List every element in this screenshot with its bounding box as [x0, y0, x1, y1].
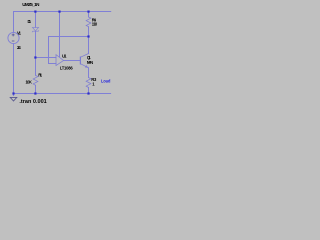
- transistor Q1: [80, 54, 88, 68]
- ground: [10, 97, 17, 101]
- wire top rail: [14, 11, 111, 13]
- wire op-amp output to Q1 base: [64, 60, 81, 62]
- svg-text:NPN: NPN: [87, 60, 93, 65]
- wire feedback vertical: [48, 37, 50, 64]
- resistor R1: [33, 75, 38, 85]
- wire Q1 emitter vertical to R3: [88, 68, 90, 78]
- svg-text:10K: 10K: [26, 79, 32, 84]
- wire left vertical to V1 top: [13, 12, 15, 33]
- svg-text:U1: U1: [62, 53, 67, 58]
- junction top rail at op-amp power vertical: [58, 11, 60, 13]
- wire node A to op-amp plus input: [36, 57, 57, 59]
- svg-text:110: 110: [92, 21, 98, 26]
- junction top rail at zener: [34, 11, 36, 13]
- wire feedback to op-amp minus input: [49, 63, 57, 65]
- junction bottom rail at R3: [87, 92, 89, 94]
- wire V1 bottom to ground: [13, 44, 15, 96]
- svg-text:LT1086: LT1086: [60, 66, 74, 71]
- svg-text:24: 24: [17, 45, 21, 50]
- background: [0, 0, 120, 106]
- wire bottom rail: [14, 93, 111, 95]
- svg-text:UMZ5_1N: UMZ5_1N: [22, 2, 40, 7]
- svg-text:Load: Load: [101, 78, 111, 83]
- wire zener bottom through node A to R1: [35, 31, 37, 75]
- wire R1 bottom lead: [35, 85, 37, 93]
- resistor R3: [86, 78, 91, 88]
- voltage source V1: [8, 32, 19, 43]
- wire Q1 collector vertical: [88, 37, 90, 54]
- junction top rail at R4: [87, 11, 89, 13]
- junction node A: [34, 56, 36, 58]
- wire feedback horizontal: [49, 36, 89, 38]
- svg-text:V1: V1: [17, 30, 22, 35]
- op-amp U1 LT1086: [56, 55, 64, 66]
- wire R3 bottom lead: [88, 88, 90, 94]
- junction bottom rail at R1: [34, 92, 36, 94]
- junction R4 bottom / collector: [87, 35, 89, 37]
- junction bottom rail at ground: [12, 92, 14, 94]
- wire zener top lead: [35, 12, 37, 28]
- svg-text:.tran 0.001: .tran 0.001: [19, 99, 46, 105]
- resistor R4: [86, 17, 91, 27]
- svg-text:R1: R1: [38, 72, 42, 77]
- wire top rail to op-amp power: [59, 12, 61, 57]
- zener diode D1: [32, 27, 39, 32]
- wire R4 top lead: [88, 12, 90, 17]
- wire R4 bottom lead: [88, 27, 90, 37]
